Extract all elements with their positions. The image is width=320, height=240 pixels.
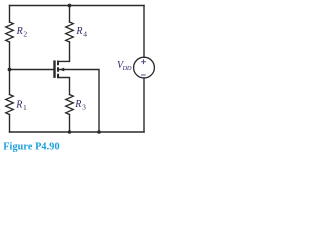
label R4 <box>75 26 87 38</box>
node drain branch top junction dot <box>68 4 72 8</box>
transistor M1 body arrowhead <box>59 68 64 72</box>
node R3-bottom junction dot <box>68 130 72 134</box>
svg-text:R: R <box>75 26 82 37</box>
wire top rail <box>10 5 145 7</box>
svg-text:R: R <box>16 26 23 37</box>
wire right rail upper (top rail to source top) <box>143 6 145 58</box>
svg-text:4: 4 <box>83 29 87 38</box>
wire left rail middle (R2 to R1) <box>9 42 11 95</box>
wire source lead (transistor source to R3) <box>58 78 70 95</box>
wire bottom rail <box>10 131 145 133</box>
wire left rail upper (top to R2) <box>9 6 11 23</box>
svg-text:1: 1 <box>23 103 27 112</box>
label R2 <box>16 26 28 38</box>
svg-text:R: R <box>74 99 81 110</box>
label R1 <box>15 100 27 112</box>
wire drain lead (R4 bottom to transistor drain) <box>58 42 70 61</box>
wire right rail lower (source bottom to bottom rail) <box>143 78 145 132</box>
node body-bottom junction dot <box>97 130 101 134</box>
resistor R4 <box>66 22 74 42</box>
node gate tap junction dot <box>8 68 12 72</box>
svg-text:R: R <box>15 100 22 111</box>
wire R3 bottom lead <box>69 115 71 133</box>
wire body lead to bottom rail <box>59 70 100 133</box>
transistor M1 channel segments <box>57 61 59 79</box>
wire drain branch top lead <box>69 6 71 23</box>
resistor R2 <box>6 22 14 42</box>
voltage source plus sign <box>142 60 146 64</box>
wire left rail lower (R1 to bottom) <box>9 115 11 133</box>
wire gate lead <box>10 69 54 71</box>
svg-text:Figure P4.90: Figure P4.90 <box>3 142 59 153</box>
label R3 <box>74 99 86 111</box>
resistor R1 <box>6 95 14 115</box>
voltage source VDD circle <box>134 57 155 78</box>
svg-text:3: 3 <box>82 103 86 112</box>
voltage source minus sign <box>142 74 146 76</box>
svg-text:2: 2 <box>23 29 27 38</box>
label VDD <box>117 60 132 72</box>
svg-text:DD: DD <box>122 65 132 72</box>
resistor R3 <box>66 95 74 115</box>
transistor M1 gate bar <box>53 60 55 78</box>
